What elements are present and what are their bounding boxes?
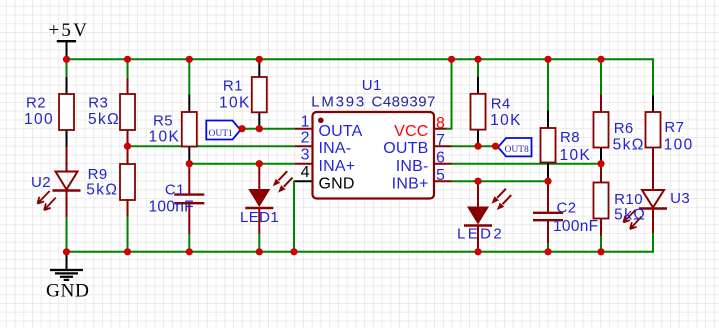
- svg-text:INA+: INA+: [319, 158, 356, 175]
- svg-text:10K: 10K: [560, 147, 592, 164]
- resistor R6: [594, 112, 609, 148]
- resistor R4: [471, 94, 486, 130]
- junction R5 C1 pin3: [186, 160, 193, 167]
- resistor R7 top pin: [652, 96, 654, 113]
- svg-text:R1: R1: [223, 78, 243, 95]
- U1 pin 7 line: [434, 145, 452, 147]
- wire pin7 OUTB: [452, 145, 496, 147]
- svg-text:U1: U1: [362, 77, 382, 94]
- resistor R1 pins: [258, 59, 260, 128]
- junction top rail E: [448, 56, 455, 63]
- svg-text:C1: C1: [165, 181, 185, 198]
- resistor R5: [182, 112, 197, 147]
- resistor R1: [252, 77, 267, 112]
- wire col B bottom: [127, 217, 129, 252]
- junction OUT1 tip: [238, 125, 245, 132]
- junction R4 pin7: [474, 143, 481, 150]
- svg-text:5kΩ: 5kΩ: [613, 137, 645, 154]
- junction R1 bottom: [256, 125, 263, 132]
- svg-text:R5: R5: [153, 113, 173, 130]
- svg-text:100: 100: [24, 111, 54, 128]
- resistor R8 pins: [547, 111, 549, 182]
- svg-text:R6: R6: [614, 120, 634, 137]
- junction OUT8 tip: [492, 143, 499, 150]
- resistor R7 bottom pin: [652, 148, 654, 166]
- svg-text:R4: R4: [491, 96, 511, 113]
- junction bottom rail F: [474, 248, 481, 255]
- svg-text:10K: 10K: [219, 95, 251, 112]
- wire pin2 INA-: [128, 145, 296, 147]
- junction top rail F: [474, 56, 481, 63]
- junction LED1 pin3: [256, 160, 263, 167]
- junction top rail C: [186, 56, 193, 63]
- svg-text:U3: U3: [670, 190, 690, 207]
- wire pin8 VCC riser: [446, 59, 452, 128]
- LED LED2 pins: [477, 181, 479, 252]
- capacitor C1 plates: [174, 195, 204, 204]
- svg-text:7: 7: [436, 132, 445, 149]
- wire col F R4 top: [477, 59, 479, 77]
- wire col G C2 bottom: [547, 243, 549, 252]
- wire pin1 OUTA: [242, 128, 295, 130]
- LED U2 symbol: [38, 172, 81, 211]
- wire top +5V rail: [67, 59, 654, 95]
- wire col B top: [127, 59, 129, 78]
- svg-text:GND: GND: [46, 281, 90, 302]
- wire pin6 INB-: [452, 163, 602, 165]
- svg-text:100nF: 100nF: [149, 199, 194, 216]
- resistor R5 pins: [188, 95, 190, 164]
- net flag OUT1: [206, 121, 240, 140]
- resistor R9: [120, 164, 135, 200]
- svg-text:OUT8: OUT8: [505, 145, 530, 155]
- PIN STUBS dark red: [67, 78, 654, 252]
- svg-text:5kΩ: 5kΩ: [614, 207, 646, 224]
- junction top rail G: [544, 56, 551, 63]
- svg-text:3: 3: [301, 147, 310, 164]
- wire col C top: [188, 59, 190, 94]
- LED U3 pins: [652, 165, 654, 233]
- svg-text:OUT1: OUT1: [209, 129, 234, 139]
- U1 pin 5 line: [434, 180, 452, 182]
- wire col G R8 top: [547, 59, 549, 110]
- ground lead: [66, 252, 68, 269]
- wire col A top: [66, 59, 68, 77]
- svg-text:R7: R7: [664, 119, 684, 136]
- junction top rail B: [124, 56, 131, 63]
- wire col H R10 bottom: [600, 236, 602, 252]
- junction R8 C2 pin5: [544, 178, 551, 185]
- junction bottom rail D: [256, 248, 263, 255]
- svg-text:10K: 10K: [490, 112, 522, 129]
- svg-text:6: 6: [436, 150, 445, 167]
- wire col A bottom: [66, 217, 68, 252]
- svg-text:OUTA: OUTA: [319, 123, 363, 140]
- power +5V symbol: [49, 20, 90, 41]
- svg-text:100: 100: [664, 137, 694, 154]
- svg-text:C2: C2: [557, 200, 577, 217]
- U1 pin1 marker dot: [318, 118, 324, 124]
- svg-text:5: 5: [436, 167, 445, 184]
- junction bottom rail G: [544, 248, 551, 255]
- wire col H R6 top: [600, 59, 602, 94]
- junction top rail D: [256, 56, 263, 63]
- capacitor C1 pins: [188, 164, 190, 234]
- resistor R10 pins: [600, 164, 602, 236]
- junction LED2 pin5: [474, 178, 481, 185]
- U1 pin 1 line: [295, 128, 313, 130]
- capacitor C2 plates: [533, 213, 563, 220]
- svg-text:U2: U2: [31, 174, 51, 191]
- LED LED2 symbol: [464, 189, 511, 226]
- net flag OUT8: [498, 138, 532, 156]
- LED LED1 symbol: [245, 171, 292, 208]
- resistor R9 pins: [127, 146, 129, 216]
- svg-text:10K: 10K: [149, 129, 181, 146]
- LED U3 symbol: [623, 190, 667, 229]
- junction bottom rail pin4: [290, 248, 297, 255]
- svg-text:100nF: 100nF: [553, 218, 598, 235]
- junction bottom rail A: [63, 248, 70, 255]
- junction top rail A: [63, 56, 70, 63]
- junction bottom rail C: [186, 248, 193, 255]
- LED U2 pins: [66, 147, 68, 217]
- svg-text:R2: R2: [26, 95, 46, 112]
- U1 pin 6 line: [434, 163, 452, 165]
- wire col D bottom: [258, 234, 260, 252]
- svg-text:LED2: LED2: [457, 226, 504, 243]
- resistor R7: [646, 112, 661, 148]
- U1 pin 4 line: [295, 180, 313, 182]
- svg-text:4: 4: [301, 164, 310, 181]
- resistor R6 bottom pin: [600, 148, 602, 164]
- resistor R2 pins: [66, 77, 68, 147]
- svg-text:R8: R8: [560, 129, 580, 146]
- svg-text:LM393: LM393: [311, 94, 366, 111]
- resistor R8: [541, 128, 556, 163]
- svg-text:R3: R3: [88, 95, 108, 112]
- junction top rail H: [597, 56, 604, 63]
- wire pin3 INA+: [189, 163, 295, 165]
- U1 pin 3 line: [295, 163, 313, 165]
- svg-text:8: 8: [436, 115, 445, 132]
- svg-text:1: 1: [301, 114, 310, 131]
- svg-text:INB+: INB+: [392, 175, 429, 192]
- junction R3 R9 pin2: [124, 143, 131, 150]
- svg-text:R10: R10: [614, 191, 643, 208]
- resistor R6 top pin: [600, 94, 602, 112]
- ground GND symbol: [50, 270, 83, 280]
- LED LED1 pins: [258, 164, 260, 234]
- junction bottom rail H: [597, 248, 604, 255]
- svg-text:INA-: INA-: [319, 140, 352, 157]
- wire col C bottom: [188, 234, 190, 252]
- svg-text:GND: GND: [319, 175, 355, 192]
- power +5V lead: [66, 41, 68, 59]
- junction R6 R10 pin6: [597, 160, 604, 167]
- capacitor C2 pins: [547, 181, 549, 243]
- resistor R3: [120, 94, 135, 130]
- PIN STUBS black: [67, 41, 654, 269]
- svg-text:VCC: VCC: [394, 123, 428, 140]
- svg-text:+5V: +5V: [49, 20, 90, 41]
- svg-text:5kΩ: 5kΩ: [86, 181, 118, 198]
- svg-text:OUTB: OUTB: [383, 140, 428, 157]
- resistor R2: [59, 94, 74, 130]
- resistor R4 pins: [477, 77, 479, 146]
- junction bottom rail B: [124, 248, 131, 255]
- IC U1 body: [313, 112, 435, 199]
- U1 pin 2 line: [295, 145, 313, 147]
- resistor R3 pins: [127, 78, 129, 146]
- wire pin5 INB+: [452, 180, 549, 182]
- COMPONENT BODIES: [59, 77, 661, 219]
- svg-text:5kΩ: 5kΩ: [88, 111, 120, 128]
- wire pin4 GND down: [294, 181, 295, 252]
- svg-text:LED1: LED1: [240, 209, 279, 226]
- svg-text:INB-: INB-: [396, 158, 429, 175]
- svg-text:C489397: C489397: [372, 94, 436, 111]
- wire bottom ground rail: [67, 233, 654, 252]
- U1 pin 8 line: [434, 128, 446, 130]
- svg-text:2: 2: [301, 129, 310, 146]
- resistor R10: [594, 183, 609, 219]
